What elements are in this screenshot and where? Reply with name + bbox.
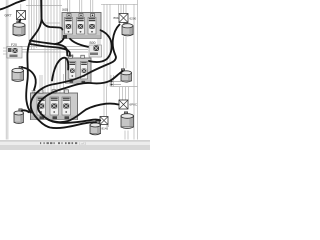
svg-text:X05: X05 <box>62 8 68 12</box>
svg-text:1 of 2: 1 of 2 <box>79 142 86 146</box>
svg-text:B5M: B5M <box>114 16 120 20</box>
svg-text:6200: 6200 <box>130 17 137 21</box>
svg-text:B00: B00 <box>90 41 96 45</box>
svg-text:V05: V05 <box>68 54 74 58</box>
svg-text:45: 45 <box>106 124 110 128</box>
svg-text:F20: F20 <box>11 43 17 47</box>
svg-text:S2: S2 <box>32 90 36 94</box>
svg-text:GR7: GR7 <box>5 13 12 17</box>
svg-text:6P0C: 6P0C <box>130 103 138 107</box>
